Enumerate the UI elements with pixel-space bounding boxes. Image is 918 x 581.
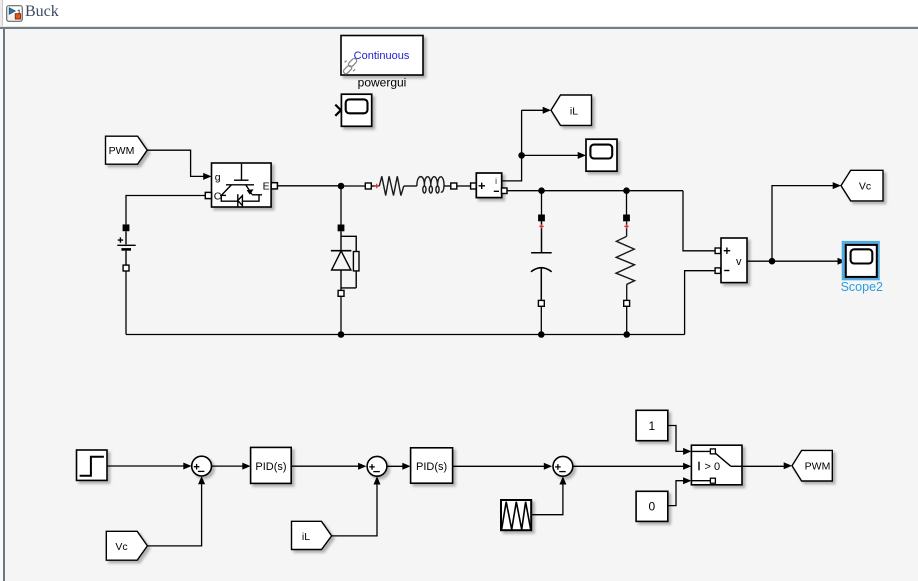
sum block Sum3 xyxy=(553,456,573,476)
IGBT gate bar xyxy=(234,179,249,181)
repeating sequence triangle wave block xyxy=(501,500,531,530)
switch threshold tick xyxy=(698,462,700,471)
snubber branch top xyxy=(341,236,356,251)
wire capacitor to rail xyxy=(540,306,542,334)
goto tag iL xyxy=(551,95,592,125)
voltmeter minus label xyxy=(724,270,729,272)
capacitor C1 xyxy=(531,221,552,300)
current measurement block xyxy=(476,173,501,198)
wire constant1 to switch xyxy=(668,426,684,452)
series inductor coils xyxy=(417,177,444,193)
battery - port xyxy=(123,265,129,271)
wire sensor minus to output node xyxy=(507,190,683,192)
svg-text:Vc: Vc xyxy=(859,181,871,193)
IGBT C port xyxy=(205,192,211,198)
wire port to resistor xyxy=(371,185,379,187)
svg-text:PID(s): PID(s) xyxy=(255,461,286,473)
svg-text:PWM: PWM xyxy=(109,145,135,157)
wire node to load resistor xyxy=(626,191,628,215)
constant 0 block xyxy=(636,491,668,521)
wire rail to voltmeter minus xyxy=(685,271,716,335)
IGBT base bar xyxy=(226,184,254,186)
Sum2 plus sign xyxy=(369,464,375,470)
wire sum2 to PID2 xyxy=(387,465,403,467)
Sum1 plus sign xyxy=(194,464,200,470)
svg-text:v: v xyxy=(736,256,742,268)
wire voltmeter output xyxy=(747,260,772,262)
svg-text:E: E xyxy=(263,181,270,193)
diode D1 with RC snubber xyxy=(331,231,359,290)
svg-text:PID(s): PID(s) xyxy=(416,461,447,473)
load resistor top port xyxy=(623,215,630,222)
red polarity mark RL xyxy=(375,184,379,188)
svg-text:Continuous: Continuous xyxy=(354,50,410,62)
wire diode to rail xyxy=(340,296,342,334)
capacitor bottom port xyxy=(538,300,544,306)
from tag Vc (feedback) xyxy=(106,531,147,560)
RL branch output port xyxy=(451,183,457,189)
switch block xyxy=(691,445,742,485)
toolbar separator xyxy=(0,27,918,29)
tab title xyxy=(25,3,59,21)
IGBT gate lead xyxy=(241,164,243,180)
DC voltage source battery xyxy=(117,231,135,265)
capacitor top port xyxy=(538,215,545,222)
diode cathode bar xyxy=(331,250,352,252)
constant 1 block xyxy=(636,410,668,440)
load resistor R1 zigzag xyxy=(616,221,635,300)
sum block Sum1 xyxy=(192,456,212,476)
battery + port xyxy=(123,224,130,231)
svg-text:i: i xyxy=(495,176,497,187)
switch top input lead xyxy=(691,450,710,452)
wire IGBT C to battery + xyxy=(126,196,205,225)
IGBT emitter diagonal xyxy=(246,185,252,194)
scope Scope2 xyxy=(846,245,877,277)
battery short plate xyxy=(121,248,131,251)
model tab bar xyxy=(0,0,918,26)
junction switch node xyxy=(338,183,345,190)
Sum3 plus sign xyxy=(555,464,561,470)
switch top contact xyxy=(710,449,715,454)
junction capacitor rail xyxy=(538,331,545,338)
red polarity mark load xyxy=(624,224,628,228)
svg-text:iL: iL xyxy=(570,105,578,117)
junction capacitor node xyxy=(538,187,545,194)
switch arm diagonal xyxy=(715,453,731,466)
diode anode lead xyxy=(340,270,342,290)
wire node to capacitor xyxy=(541,191,543,215)
svg-text:Scope2: Scope2 xyxy=(841,280,883,294)
diode top port xyxy=(338,225,345,232)
switch bottom contact xyxy=(710,478,715,483)
IGBT emitter lead xyxy=(252,194,262,196)
current sensor minus label xyxy=(494,190,499,192)
junction Vc node xyxy=(769,258,776,265)
svg-text:iL: iL xyxy=(302,531,310,543)
wire to Scope1 xyxy=(522,154,579,156)
Sum2 minus sign xyxy=(373,471,380,473)
svg-text:PWM: PWM xyxy=(805,461,831,473)
battery plus sign xyxy=(118,237,123,242)
junction iL scope xyxy=(518,152,525,159)
svg-text:C: C xyxy=(214,190,222,202)
svg-text:> 0: > 0 xyxy=(705,461,721,473)
wire Vc tag to sum1 xyxy=(147,484,201,546)
PID controller 2 xyxy=(411,448,453,483)
wire RL to current sensor xyxy=(457,185,471,187)
wire sawtooth to sum3 xyxy=(531,484,563,515)
diode bottom port xyxy=(338,290,344,296)
wire up to Vc goto xyxy=(772,186,833,262)
wire sum1 to PID1 xyxy=(212,465,244,467)
wire to iL goto xyxy=(522,109,544,111)
step block xyxy=(77,450,108,480)
svg-text:Vc: Vc xyxy=(115,541,127,553)
junction load node xyxy=(623,187,630,194)
RL branch input port xyxy=(365,183,371,189)
diode triangle inside IGBT xyxy=(238,196,243,206)
tab accent line xyxy=(0,26,918,27)
wire load to rail xyxy=(626,306,628,334)
snubber branch bottom xyxy=(341,271,356,288)
junction load rail xyxy=(623,331,630,338)
IGBT C lead xyxy=(220,194,226,196)
wire inductor to output port xyxy=(444,185,451,187)
load resistor bottom port xyxy=(624,300,630,306)
wire switch node to diode xyxy=(340,186,342,225)
wire resistor to inductor xyxy=(404,185,417,187)
series resistor zigzag xyxy=(379,176,404,195)
goto tag PWM xyxy=(792,450,832,481)
IGBT emitter arrow xyxy=(247,189,254,194)
diode cathode bar inside IGBT xyxy=(237,194,239,206)
sum block Sum2 xyxy=(367,456,387,476)
ground rail wire xyxy=(126,334,685,336)
wire battery - down to rail xyxy=(125,271,127,335)
snubber resistor body xyxy=(353,252,359,271)
diode triangle xyxy=(332,251,351,270)
wire to Scope2 xyxy=(772,260,838,262)
IGBT E port xyxy=(271,183,277,189)
current sensor minus port xyxy=(502,188,508,194)
PID controller 1 xyxy=(251,447,292,483)
wire step to sum1 xyxy=(107,465,184,467)
wire switch to PWM goto xyxy=(742,465,784,467)
junction diode rail xyxy=(338,331,345,338)
from tag PWM (gate drive) xyxy=(106,136,148,164)
svg-text:g: g xyxy=(215,172,221,184)
voltmeter plus label xyxy=(724,248,731,254)
current sensor plus label xyxy=(479,183,486,189)
powergui block xyxy=(341,36,423,76)
left gutter xyxy=(0,29,3,581)
svg-text:powergui: powergui xyxy=(358,76,407,90)
scope Scope (unconnected) xyxy=(341,94,371,126)
voltage measurement block xyxy=(721,238,747,283)
svg-text:0: 0 xyxy=(649,500,656,514)
wire PWM tag to IGBT gate xyxy=(147,150,203,176)
scope Scope2 selection highlight xyxy=(842,241,880,280)
current sensor input port xyxy=(471,183,477,189)
wire i output up xyxy=(502,110,522,181)
wire PID1 to sum2 xyxy=(291,465,359,467)
Sum3 minus sign xyxy=(559,471,566,473)
Sum1 minus sign xyxy=(198,470,205,472)
IGBT antiparallel diode loop xyxy=(221,195,259,201)
unconnected input chevron xyxy=(335,105,341,116)
wire IGBT E to switch node xyxy=(277,185,365,187)
wire iL tag to sum2 xyxy=(332,484,377,536)
switch bottom input lead xyxy=(691,480,710,482)
wire PID2 to sum3 xyxy=(453,465,545,467)
scope Scope1 xyxy=(586,139,617,171)
IGBT switch block U1 xyxy=(212,163,272,207)
wire sum3 to switch xyxy=(573,465,684,467)
battery long plate xyxy=(117,244,135,246)
wire output node to voltmeter plus xyxy=(683,191,715,251)
model icon xyxy=(6,5,23,22)
IGBT collector diagonal xyxy=(221,185,231,195)
from tag iL (feedback) xyxy=(292,521,332,549)
voltmeter plus port xyxy=(715,248,721,254)
red polarity mark capacitor xyxy=(539,224,543,228)
wire constant0 to switch xyxy=(668,481,684,506)
goto tag Vc xyxy=(841,170,883,201)
voltmeter minus port xyxy=(715,268,721,274)
switch output lead xyxy=(731,465,742,467)
svg-text:1: 1 xyxy=(649,419,656,433)
